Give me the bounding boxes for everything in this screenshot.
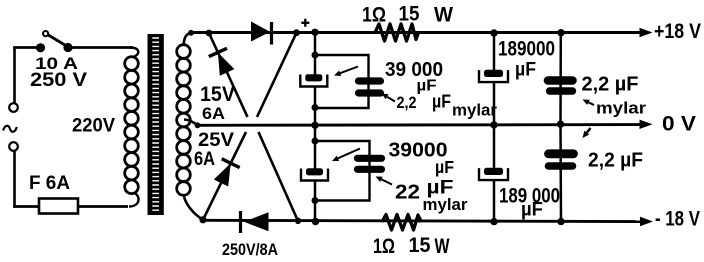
svg-text:15: 15 <box>409 234 431 257</box>
transformer primary winding L1 <box>125 57 139 71</box>
node junction C3/C4 bottom <box>312 197 319 204</box>
node junction 0V at C5 <box>490 121 497 128</box>
wire primary left vertical upper <box>13 47 16 104</box>
svg-text:µF: µF <box>435 157 454 177</box>
switch S1 right contact <box>63 43 72 52</box>
svg-text:6A: 6A <box>194 148 215 170</box>
wire C6 branch upper <box>493 125 496 168</box>
pointer arrow to C8 <box>587 128 591 133</box>
svg-text:6A: 6A <box>202 105 225 123</box>
svg-text:189000: 189000 <box>498 38 555 61</box>
pointer arrow to C7 <box>588 102 594 105</box>
svg-text:mylar: mylar <box>423 196 469 214</box>
node junction C5 top rail <box>490 29 497 36</box>
pointer arrow to C3 <box>338 149 360 159</box>
wire C5 branch upper <box>493 33 496 70</box>
svg-text:250 V: 250 V <box>30 69 87 91</box>
node junction bottom rail at C8 <box>557 218 564 225</box>
transformer core <box>148 34 164 215</box>
wire rectifier diagonal A upper <box>209 33 248 117</box>
secondary top tap wire <box>184 33 193 46</box>
node junction 0V at C7 <box>557 121 564 128</box>
svg-text:W: W <box>434 4 453 27</box>
capacitor C7 2.2uF mylar <box>548 76 573 85</box>
svg-text:15: 15 <box>399 3 420 26</box>
svg-text:- 18 V: - 18 V <box>655 208 700 231</box>
svg-text:2,2: 2,2 <box>397 93 417 112</box>
label + polarity <box>301 19 309 27</box>
node junction bottom rail at C6 <box>490 218 497 225</box>
svg-text:0 V: 0 V <box>662 113 696 136</box>
node junction diagonalA-toprail <box>206 30 213 37</box>
node junction C7 top rail <box>557 29 564 36</box>
wire switch to transformer primary <box>68 46 133 49</box>
wire bottom rail (-) <box>203 220 641 221</box>
node junction C3/C4 top <box>312 138 319 145</box>
node junction C1/C2 top <box>312 52 319 59</box>
fuse F 6A <box>39 199 78 214</box>
switch S1 left contact <box>36 43 45 52</box>
AC source symbol ~ <box>3 126 17 132</box>
svg-text:mylar: mylar <box>452 102 498 120</box>
node secondary top tap junction <box>188 30 194 36</box>
node secondary center tap junction <box>195 122 201 128</box>
wire rectifier diagonal A lower <box>259 132 299 221</box>
AC input terminal T1 <box>9 103 18 112</box>
pointer arrow to C4 <box>381 179 392 184</box>
wire C1 branch upper <box>314 32 317 74</box>
wire C3 branch lower <box>314 181 317 222</box>
wire C3 branch upper <box>314 125 317 168</box>
svg-text:µF: µF <box>521 200 543 221</box>
node junction bottom tap <box>199 216 206 223</box>
diode D1 top rail <box>251 22 270 42</box>
svg-text:250V/8A: 250V/8A <box>222 240 278 259</box>
svg-text:2,2 µF: 2,2 µF <box>582 74 639 96</box>
node junction C1 branch top rail <box>311 29 318 36</box>
transformer primary winding entry <box>130 48 138 57</box>
capacitor C5 189000uF electrolytic <box>484 70 503 77</box>
output arrow 0V <box>640 120 653 129</box>
wire primary bottom left <box>13 205 39 208</box>
wire C8 branch <box>559 124 562 221</box>
svg-text:15V: 15V <box>200 82 236 106</box>
wire C5 branch lower <box>493 83 496 125</box>
wire C2 loop <box>315 55 369 108</box>
svg-text:µF: µF <box>432 92 451 112</box>
wire C4 loop <box>315 141 370 201</box>
node junction diagonalB-toprail <box>293 29 300 36</box>
svg-text:µF: µF <box>515 60 536 81</box>
wire C7 branch <box>559 33 562 125</box>
wire fuse to transformer primary <box>78 205 128 208</box>
node junction C1/C2 bottom <box>312 104 319 111</box>
resistor R2 1ohm 15W <box>382 215 422 231</box>
svg-text:2,2 µF: 2,2 µF <box>588 150 643 172</box>
transformer primary winding exit <box>129 193 139 207</box>
wire rectifier diagonal B upper <box>257 33 297 117</box>
node junction 0V at C branch <box>311 122 318 129</box>
transformer secondary winding L2 <box>177 45 191 59</box>
svg-text:F 6A: F 6A <box>29 173 70 194</box>
wire 0V center rail <box>196 123 641 127</box>
wire top rail (+) <box>189 31 641 34</box>
transformer core laminations hatch <box>152 38 159 210</box>
node junction diagonalA-bottomrail <box>295 218 301 224</box>
svg-text:+18 V: +18 V <box>654 20 701 43</box>
AC input terminal T2 <box>9 142 18 151</box>
capacitor C1 39000uF electrolytic <box>305 74 322 81</box>
svg-text:W: W <box>435 235 450 258</box>
secondary center tap wire <box>184 120 198 126</box>
pointer arrow to C2 <box>387 97 395 102</box>
output arrow -18V <box>640 217 653 226</box>
pointer arrow to C1 <box>340 67 358 74</box>
diode D4 on diagonal B <box>214 163 231 186</box>
switch S1 lever <box>48 35 67 47</box>
svg-text:mylar: mylar <box>596 100 647 118</box>
capacitor C6 189000uF electrolytic <box>484 168 503 175</box>
wire primary left vertical lower <box>13 151 16 208</box>
svg-text:220V: 220V <box>72 115 115 137</box>
wire C6 branch lower <box>493 181 496 222</box>
wire C1 branch lower <box>314 87 317 125</box>
output arrow +18V <box>640 28 653 37</box>
resistor R1 1ohm 15W <box>375 24 419 41</box>
capacitor C3 39000uF electrolytic <box>306 168 323 175</box>
diode D2 bottom rail <box>239 211 242 233</box>
secondary bottom tap wire <box>184 197 203 220</box>
svg-text:1Ω: 1Ω <box>373 235 395 258</box>
svg-text:22: 22 <box>395 182 420 204</box>
wire primary top to switch <box>13 46 38 49</box>
capacitor C8 2.2uF mylar <box>549 149 574 158</box>
diode D3 on diagonal A <box>218 53 235 76</box>
wire rectifier diagonal B lower <box>203 132 246 220</box>
capacitor C2 2.2uF mylar <box>359 77 381 84</box>
node junction bottom rail at C branch <box>312 218 319 225</box>
svg-text:1Ω: 1Ω <box>362 4 386 27</box>
capacitor C4 22uF mylar <box>358 155 382 162</box>
